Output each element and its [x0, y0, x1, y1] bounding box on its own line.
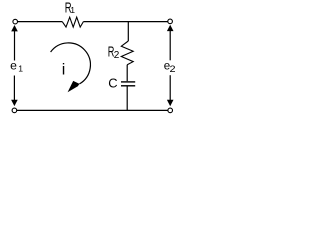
capacitor C bottom plate: [121, 85, 135, 87]
label e1: [10, 59, 23, 74]
wire top-right (R1 to node 2): [83, 21, 167, 23]
wire middle branch bottom (capacitor to bottom rail): [126, 86, 128, 110]
wire top-left (node 1 to R1): [18, 21, 63, 23]
capacitor C top plate: [121, 81, 135, 83]
resistor R1: [62, 17, 83, 27]
resistor R2: [121, 41, 133, 65]
wire middle branch (R2 to capacitor): [126, 65, 128, 82]
bottom rail wire: [17, 109, 168, 111]
e2 arrow up (toward top-right node): [167, 25, 174, 61]
terminal node bottom-right: [168, 108, 173, 113]
e1 arrow up (toward top-left node): [11, 25, 18, 61]
e2 arrow down (toward bottom-right node): [167, 75, 174, 106]
terminal node top-left: [13, 19, 18, 24]
svg-text:1: 1: [18, 64, 23, 74]
svg-text:C: C: [108, 76, 117, 91]
wire middle branch top (top rail to R2): [127, 22, 129, 41]
svg-text:2: 2: [170, 64, 176, 74]
terminal node bottom-left: [12, 108, 17, 113]
label e2: [164, 60, 176, 75]
svg-text:2: 2: [114, 50, 120, 61]
label R1: [65, 0, 75, 16]
svg-text:1: 1: [70, 5, 75, 15]
svg-text:i: i: [62, 62, 66, 79]
label R2: [108, 44, 120, 62]
loop current arrow i: [51, 43, 91, 92]
terminal node top-right: [168, 19, 173, 24]
e1 arrow down (toward bottom-left node): [11, 76, 18, 107]
svg-text:e: e: [10, 59, 17, 73]
